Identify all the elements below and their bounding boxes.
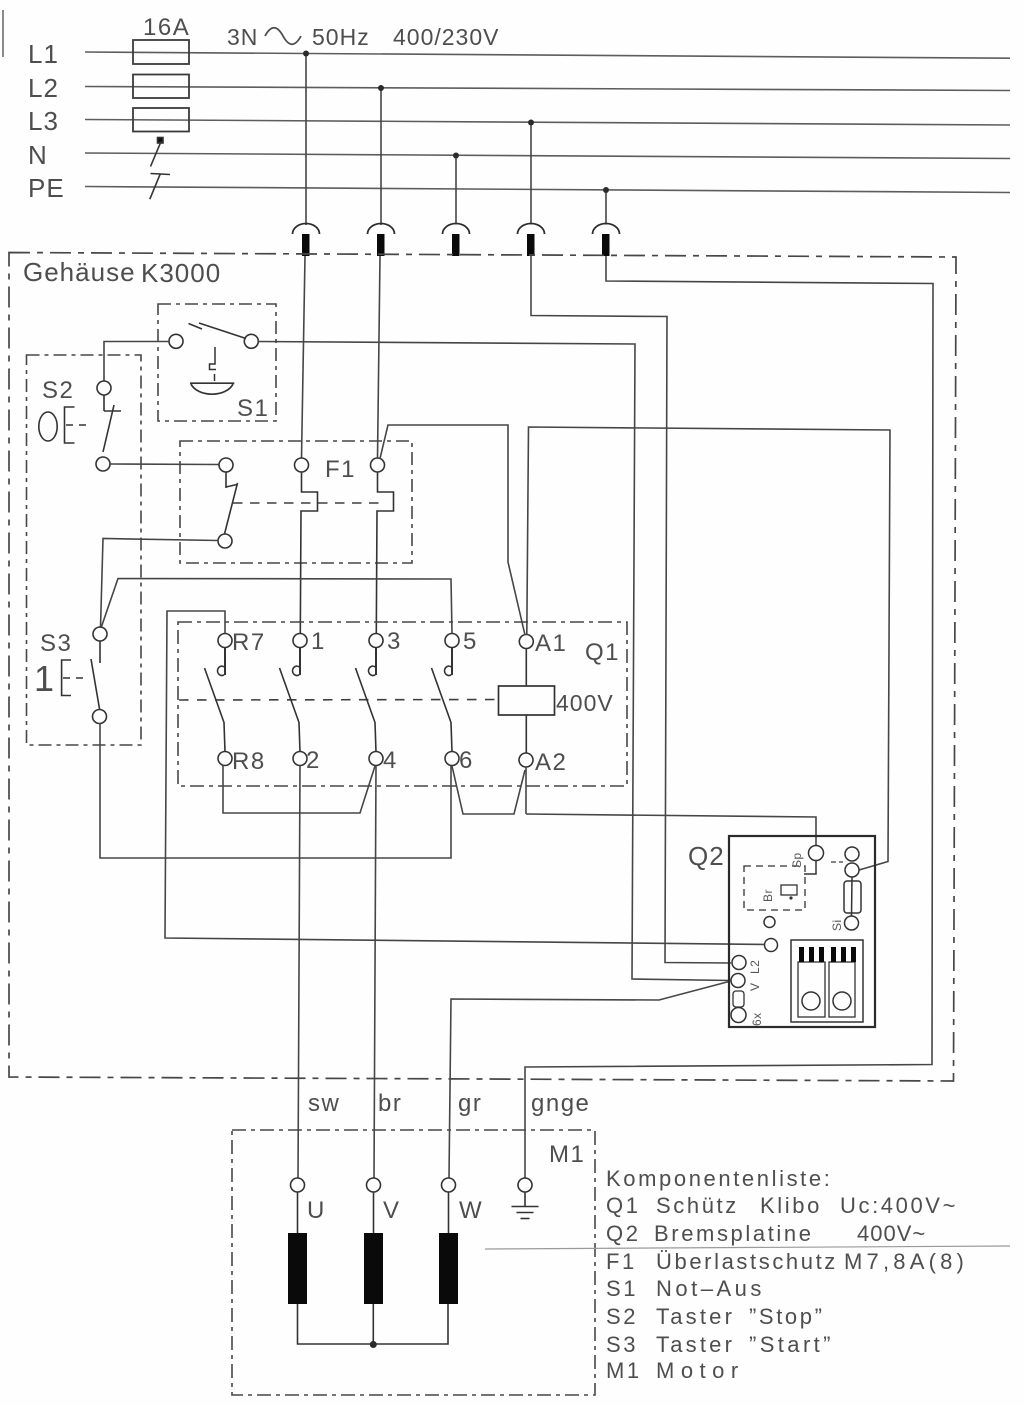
svg-text:50Hz: 50Hz	[312, 24, 370, 50]
svg-text:L2: L2	[748, 960, 762, 974]
enclosure Gehäuse K3000 (dash-dot box)	[9, 253, 956, 1082]
svg-text:L2: L2	[28, 73, 59, 103]
wire F1 aux bottom to S3 top	[101, 539, 219, 628]
Q1 contact 5-6	[432, 634, 460, 766]
svg-text:S3: S3	[40, 630, 72, 657]
Q1 contact R7-R8	[205, 634, 233, 766]
wire contact 4 to motor V (br)	[374, 766, 376, 1179]
cable gland L2	[368, 224, 395, 256]
S1 NC contact blade	[189, 323, 247, 339]
svg-text:400V: 400V	[556, 690, 614, 716]
Q1 coil terminal A1	[519, 635, 533, 649]
svg-text:400/230V: 400/230V	[393, 24, 499, 50]
svg-text:gnge: gnge	[531, 1090, 590, 1117]
fuse 16A pole L1	[133, 40, 189, 64]
svg-text:V: V	[383, 1197, 401, 1224]
svg-text:L1: L1	[28, 39, 59, 69]
svg-text:A2: A2	[535, 749, 567, 776]
AC sine symbol	[265, 28, 301, 45]
pushbutton S3 (NO, Start)	[93, 627, 107, 641]
Q2 pad Sp	[809, 846, 824, 861]
node N (supply line)	[85, 153, 1010, 159]
svg-text:sw: sw	[308, 1090, 340, 1117]
M1 terminal PE	[518, 1178, 532, 1192]
Q2 fuse Si	[844, 881, 861, 913]
S2 button actuator	[39, 407, 92, 443]
S1 contact right terminal	[244, 334, 258, 348]
wire N drop	[455, 156, 457, 225]
svg-text:V: V	[748, 982, 762, 991]
svg-text:A1: A1	[535, 630, 567, 657]
S1 mushroom head	[190, 383, 234, 394]
M1 terminal W	[442, 1178, 456, 1192]
wire S3 node to Q1 contact 5	[101, 579, 452, 634]
svg-text:3: 3	[387, 628, 402, 655]
svg-text:4: 4	[383, 747, 398, 774]
junction on PE	[603, 187, 609, 193]
wire Q2 to motor W (gr)	[449, 982, 729, 1179]
wire PE drop inside enclosure to motor gnge	[525, 256, 933, 1178]
svg-text:Gehäuse: Gehäuse	[23, 257, 136, 287]
M1 winding V	[373, 1192, 375, 1233]
svg-text:U: U	[307, 1197, 326, 1224]
push buttons S2 S3 (dashed box)	[27, 355, 142, 745]
M1 winding W	[448, 1192, 450, 1233]
node L2 (supply line)	[85, 87, 1010, 91]
Q2 pad K	[765, 939, 778, 952]
Q2 board outline	[729, 836, 875, 1027]
cable gland PE	[593, 224, 620, 256]
svg-text:1: 1	[34, 658, 54, 699]
contactor Q1 (dash-dot box)	[178, 622, 627, 786]
isolating link N	[151, 138, 164, 167]
svg-text:R7: R7	[232, 629, 266, 656]
separator line	[485, 1246, 1010, 1249]
Q2 pads right pair	[845, 847, 859, 861]
wire L2 drop inside enclosure to F1	[378, 256, 381, 458]
motor M1 (dash-dot box)	[232, 1130, 595, 1395]
brake board Q2	[729, 836, 875, 1027]
wire S1 right to Q2 (via right side drop)	[258, 342, 731, 981]
M1 terminal U	[291, 1178, 305, 1192]
wire L1 drop inside enclosure to F1	[302, 256, 306, 458]
svg-text:F1: F1	[325, 456, 356, 483]
wire PE drop	[605, 190, 607, 225]
fuse 16A pole L3	[133, 108, 189, 132]
node L1 (supply line)	[85, 52, 1010, 58]
wire S1 left to S2 top	[104, 342, 169, 382]
wire contact 2 to motor U (sw)	[298, 766, 300, 1179]
svg-text:Komponentenliste:: Komponentenliste:	[606, 1166, 832, 1191]
svg-text:F1ÜberlastschutzM7,8A(8): F1ÜberlastschutzM7,8A(8)	[606, 1249, 968, 1274]
junction star point	[370, 1341, 377, 1348]
Q2 pad C	[764, 917, 775, 928]
wire R8 to contact 4	[223, 766, 375, 814]
svg-text:L3: L3	[28, 106, 59, 136]
wire F1 L2-pole to A1	[380, 425, 525, 635]
component list	[606, 1166, 968, 1383]
wire L3 drop inside enclosure to Q2	[531, 256, 731, 963]
F1 heater element pole L2	[371, 458, 385, 472]
wire L3 drop	[530, 123, 532, 225]
junction on L2	[378, 85, 384, 91]
F1 auxiliary contact blade	[225, 472, 238, 534]
cable gland L1	[293, 224, 320, 256]
junction on L1	[303, 51, 309, 57]
svg-text:3N: 3N	[227, 24, 258, 50]
svg-text:M1: M1	[549, 1141, 585, 1168]
M1 terminal V	[367, 1178, 381, 1192]
node PE (supply line)	[85, 187, 1010, 193]
isolating link PE	[150, 174, 170, 200]
Q1 contact linkage (dashed)	[179, 699, 495, 702]
S3 button actuator	[62, 660, 88, 696]
svg-text:N: N	[28, 140, 48, 170]
emergency stop S1 (dashed box)	[158, 304, 276, 421]
svg-text:1: 1	[311, 628, 326, 655]
node L3 (supply line)	[85, 120, 1010, 126]
svg-text:Sp: Sp	[790, 852, 804, 868]
svg-text:S1: S1	[237, 395, 269, 422]
svg-text:K3000: K3000	[141, 258, 221, 288]
svg-text:6x: 6x	[750, 1012, 764, 1026]
wire jumper contact 6 to A2	[452, 766, 525, 814]
svg-text:Br: Br	[761, 889, 775, 902]
wire L2 drop	[380, 88, 382, 225]
wire R7 to Q2 pad	[165, 611, 765, 945]
svg-text:5: 5	[463, 628, 478, 655]
wire star point	[298, 1304, 449, 1344]
page edge artifact	[2, 10, 4, 57]
svg-text:PE: PE	[28, 173, 65, 203]
Q1 contact 3-4	[356, 634, 384, 766]
wire S3 bottom to Q1 contact 6	[100, 724, 451, 859]
fuse 16A pole L2	[133, 75, 189, 99]
Q2 left pads column	[732, 956, 746, 970]
svg-text:2: 2	[306, 747, 321, 774]
svg-text:S2: S2	[42, 377, 74, 404]
Q2 relay Br (dashed)	[744, 866, 805, 910]
cable gland N	[443, 224, 470, 256]
svg-text:6: 6	[459, 747, 474, 774]
Q2 connector block	[791, 940, 863, 1022]
F1 auxiliary contact bottom terminal	[218, 534, 232, 548]
M1 winding U	[297, 1192, 299, 1233]
wire S2 bottom to F1 left	[110, 463, 219, 466]
wire A2 to Q2 pad Sp	[526, 814, 816, 846]
wire L1 drop	[305, 54, 307, 226]
overload protection F1 (dashed box)	[180, 441, 412, 563]
svg-text:S1Not–Aus: S1Not–Aus	[606, 1276, 765, 1301]
svg-text:16A: 16A	[143, 14, 190, 41]
Q1 coil terminal A2	[519, 753, 533, 767]
F1 heater element pole L1	[295, 458, 309, 472]
F1 auxiliary contact top terminal	[219, 458, 233, 472]
svg-text:Q2Bremsplatine400V~: Q2Bremsplatine400V~	[606, 1221, 926, 1246]
S1 contact left terminal	[169, 334, 183, 348]
Q1 contact 1-2	[280, 634, 308, 766]
svg-text:Q2: Q2	[688, 841, 725, 871]
svg-text:br: br	[378, 1090, 402, 1117]
svg-text:Q1SchützKliboUc:400V~: Q1SchützKliboUc:400V~	[606, 1193, 958, 1218]
svg-text:Q1: Q1	[585, 639, 620, 666]
wire A1 to Q2 right pad	[527, 427, 890, 870]
S1 actuator link	[210, 347, 217, 381]
cable gland L3	[518, 224, 545, 256]
ground symbol	[512, 1192, 539, 1219]
junction on L3	[528, 120, 534, 126]
pushbutton S2 (NC, Stop)	[97, 381, 111, 395]
svg-text:M1Motor: M1Motor	[606, 1358, 745, 1383]
Q1 coil 400V	[499, 686, 555, 715]
junction on N	[453, 153, 459, 159]
F1 trip linkage (dashed)	[233, 502, 386, 504]
svg-text:R8: R8	[232, 748, 266, 775]
svg-text:W: W	[459, 1197, 483, 1224]
svg-text:Si: Si	[830, 919, 844, 931]
svg-text:gr: gr	[458, 1090, 482, 1117]
